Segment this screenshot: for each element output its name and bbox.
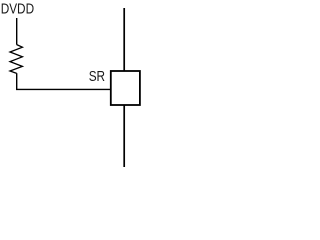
wire at box bottom (123, 105, 125, 167)
svg-text:SR: SR (89, 68, 106, 85)
wire from resistor bottom to box left pin (17, 73, 111, 89)
component box U1 (111, 71, 140, 105)
wire at box top (123, 8, 125, 71)
resistor R1 (10, 45, 22, 74)
wire from DVDD to resistor top (16, 18, 18, 45)
svg-text:DVDD: DVDD (1, 1, 35, 18)
